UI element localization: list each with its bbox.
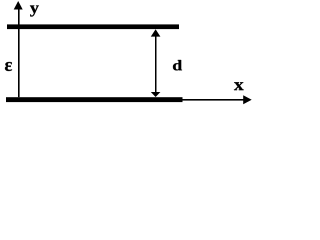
label x: [234, 82, 244, 90]
label y: [30, 6, 39, 17]
x-axis arrowhead: [243, 95, 252, 104]
top plate: [7, 24, 179, 29]
dimension arrow top head (points up to top plate): [151, 29, 161, 36]
dimension arrow bottom head (points down to bottom plate): [151, 92, 161, 97]
label d: [173, 60, 182, 70]
label epsilon (permittivity): [5, 62, 12, 71]
parallel-plate capacitor diagram: [0, 0, 255, 112]
y-axis shaft: [18, 6, 20, 97]
bottom plate: [6, 97, 183, 102]
y-axis arrowhead: [14, 1, 23, 10]
dimension arrow d shaft: [155, 31, 157, 95]
x-axis line: [183, 99, 245, 101]
